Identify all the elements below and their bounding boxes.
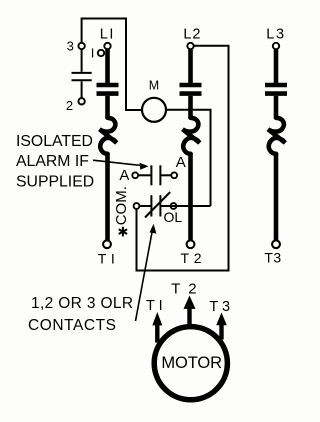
svg-text:I: I	[91, 46, 95, 61]
terminal T1	[103, 240, 111, 248]
svg-text:T 2: T 2	[171, 281, 198, 298]
note text 1,2 OR 3 OLR CONTACTS	[28, 295, 133, 334]
svg-text:A: A	[119, 167, 129, 184]
motor lead arrow T3	[216, 313, 227, 340]
alarm contact A (NO)	[138, 165, 171, 185]
svg-text:COM.: COM.	[113, 186, 130, 225]
svg-text:OL: OL	[163, 209, 182, 225]
svg-text:2: 2	[66, 98, 73, 113]
wire heater to T1 (thick)	[105, 153, 110, 240]
svg-text:SUPPLIED: SUPPLIED	[16, 174, 94, 191]
asterisk footnote	[119, 227, 127, 237]
arrow note to OL contact	[136, 224, 157, 321]
coil M	[142, 98, 166, 122]
svg-text:L2: L2	[183, 27, 201, 43]
terminal 1	[98, 50, 104, 56]
motor body	[154, 327, 227, 400]
terminal L1	[104, 43, 110, 49]
svg-text:T 3: T 3	[209, 299, 230, 315]
overload heater OL pole 3	[268, 118, 285, 154]
wire L2 to OL common terminal (loop)	[137, 46, 229, 271]
alarm auxiliary NO contact (between 3 and 2)	[72, 49, 92, 98]
arrow note to alarm contact	[93, 160, 149, 170]
svg-text:MOTOR: MOTOR	[161, 354, 222, 372]
svg-text:T I: T I	[98, 250, 116, 266]
svg-text:CONTACTS: CONTACTS	[28, 317, 117, 334]
terminal L3	[273, 43, 279, 49]
terminal OL right	[171, 203, 177, 209]
terminal L2	[187, 43, 193, 49]
motor lead arrow T2	[184, 296, 196, 326]
overload relay NC contact OL	[139, 192, 210, 218]
svg-text:3: 3	[67, 38, 74, 53]
contactor M power contact, pole 2	[180, 49, 202, 118]
wire terminal 3 to coil M (top loop)	[82, 19, 142, 111]
wire heater to T2 (thick)	[188, 153, 193, 240]
wire heater to T3 (thick)	[274, 153, 279, 240]
terminal OL left (common)	[134, 203, 140, 209]
wire coil M to OL contact (right lead)	[166, 110, 211, 206]
svg-text:T 2: T 2	[181, 250, 202, 266]
contactor M power contact, pole 3	[265, 49, 287, 118]
svg-text:T3: T3	[264, 250, 281, 266]
contactor M power contact, pole 1	[97, 49, 119, 118]
terminal A left	[132, 172, 138, 178]
overload heater OL pole 1	[100, 118, 117, 154]
svg-text:1,2 OR 3 OLR: 1,2 OR 3 OLR	[31, 295, 133, 312]
svg-text:LI: LI	[100, 27, 115, 43]
svg-text:M: M	[149, 78, 159, 92]
svg-text:T I: T I	[146, 298, 163, 314]
terminal T3	[272, 240, 280, 248]
svg-text:A: A	[176, 154, 186, 171]
motor lead arrow T1	[152, 312, 162, 343]
svg-text:L3: L3	[266, 27, 286, 43]
overload heater OL pole 2	[183, 118, 200, 154]
terminal 3	[78, 43, 84, 49]
terminal T2	[187, 240, 195, 248]
terminal 2	[78, 98, 84, 104]
note text ISOLATED ALARM IF SUPPLIED	[16, 133, 94, 191]
svg-text:ALARM IF: ALARM IF	[16, 153, 89, 170]
terminal A right	[171, 172, 177, 178]
svg-text:ISOLATED: ISOLATED	[16, 133, 93, 150]
